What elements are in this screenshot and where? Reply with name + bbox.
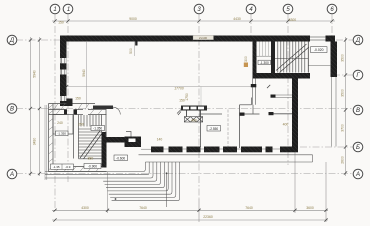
svg-text:3500: 3500 (341, 54, 345, 62)
porch front edge (145, 161, 312, 163)
window right wall lower (double lines) (331, 77, 333, 147)
svg-text:150: 150 (75, 97, 81, 101)
elevation box -1.350 bottom (51, 164, 74, 169)
corridor wall jamb left (271, 95, 276, 98)
jog white slot (129, 139, 136, 143)
porch slab top edge line (139, 154, 313, 156)
svg-text:3600: 3600 (306, 206, 314, 210)
window sill lines in bottom band (141, 148, 280, 150)
svg-text:Д: Д (9, 38, 15, 44)
white label patch on top wall (193, 35, 214, 40)
partition y114 right part (274, 113, 293, 115)
bubble axis 1 (50, 4, 60, 14)
stair mid shaft double line (73, 115, 75, 159)
stair break diagonal 1 (276, 44, 307, 71)
stair lower landing wall (257, 73, 311, 79)
svg-text:5940: 5940 (82, 69, 86, 77)
tambour wall (93, 106, 113, 110)
upper flight treads (81, 115, 99, 127)
svg-text:9000: 9000 (129, 17, 137, 21)
extension line block corner to bottom dim (107, 172, 109, 213)
svg-text:-0.9: -0.9 (65, 165, 71, 169)
axis B line right (300, 146, 353, 148)
ticks interior dim (65, 85, 270, 88)
extension line right wall bottom (325, 162, 327, 222)
elevation box -0.900 bottom (84, 164, 101, 169)
block outer wall bottom double line (49, 171, 107, 173)
door dim drop line (133, 42, 135, 57)
svg-text:1: 1 (67, 7, 70, 13)
partition y114 left part (245, 113, 260, 115)
block outer wall top line (49, 103, 96, 105)
svg-text:Б: Б (356, 145, 360, 151)
svg-text:140: 140 (157, 138, 163, 142)
axis 1' line (67, 14, 69, 183)
interior dimension drop line (200, 87, 202, 110)
svg-text:В: В (10, 107, 14, 113)
stair stringer wall (271, 42, 275, 74)
ticks left dims (29, 38, 41, 175)
axis D line right (336, 39, 353, 41)
bubble axis G right (353, 70, 363, 80)
right dimension line (345, 37, 347, 176)
orange marker near stair (244, 63, 248, 68)
svg-text:150: 150 (179, 99, 185, 103)
stair well landing line (257, 55, 272, 57)
svg-text:400: 400 (191, 118, 197, 122)
svg-text:А: А (9, 172, 14, 178)
svg-text:-2.550: -2.550 (209, 127, 218, 131)
dashed partition x228 (227, 110, 229, 147)
footing lines left of block (44, 105, 46, 180)
extension line porch to bottom dim (198, 199, 200, 222)
axis 1 line (54, 14, 56, 212)
svg-text:3700: 3700 (341, 124, 345, 132)
svg-text:2х100: 2х100 (199, 36, 208, 40)
jog notch step (126, 132, 131, 137)
svg-text:5940: 5940 (33, 70, 37, 78)
door jamb tick below top wall (135, 42, 137, 46)
equipment base box hatched (184, 117, 202, 122)
bottom dimension line 2 (52, 219, 328, 221)
svg-text:-0.600: -0.600 (116, 156, 125, 160)
partition x200 (200, 110, 202, 148)
block door jambs top band (64, 109, 67, 114)
window left wall 1 (60, 58, 66, 63)
hatch ticks block top wall (54, 104, 89, 110)
bubble axis V right (353, 105, 363, 115)
elevation box -0.600 porch (114, 155, 128, 161)
bubble axis 6 (327, 4, 337, 14)
bubble axis V left (7, 104, 17, 114)
axis A line (16, 173, 353, 175)
svg-text:3430: 3430 (33, 138, 37, 146)
svg-text:300: 300 (244, 56, 248, 62)
hatch ticks on block walls (49, 105, 103, 172)
entrance steps fan (45, 162, 145, 172)
corridor wall y95.5 (276, 94, 293, 96)
svg-text:-1.300: -1.300 (260, 61, 269, 65)
block right wall dark (102, 132, 107, 168)
step leader line (166, 173, 168, 207)
svg-text:1750: 1750 (185, 93, 189, 101)
equipment left arrow tick (177, 110, 181, 116)
left dimension line outer (30, 37, 32, 176)
svg-text:150: 150 (58, 20, 64, 24)
bottom dimension line 1 (52, 209, 328, 211)
tambour door arc (113, 107, 120, 114)
equipment legs (186, 111, 188, 117)
small room top-left of block (53, 115, 73, 135)
porch slab edge right (312, 155, 314, 162)
bottom wall upper-left portion (105, 137, 128, 143)
stair flight divider (275, 58, 308, 60)
svg-text:2600: 2600 (341, 156, 345, 164)
bubble axis B right (353, 142, 363, 152)
bubble axis 1' (63, 4, 73, 14)
elevation box -0.020 top right (311, 47, 328, 53)
svg-text:В: В (356, 108, 360, 114)
axis 6 line (331, 14, 333, 43)
left dimension line inner (39, 37, 41, 176)
svg-text:-0.020: -0.020 (314, 48, 324, 52)
top dimension line (52, 20, 335, 22)
svg-text:880: 880 (88, 157, 94, 161)
door jamb left wall bottom (67, 99, 73, 107)
svg-text:4430: 4430 (233, 17, 241, 21)
step leader dot (166, 172, 168, 174)
elevation box -1.300 stair (258, 60, 271, 64)
bottom wall jog block (125, 137, 142, 148)
svg-text:6300: 6300 (289, 18, 297, 22)
block top wall band (49, 110, 107, 115)
step leader dot 2 (115, 198, 117, 200)
stair break diagonal 2 (280, 47, 310, 73)
axis 3 line (198, 14, 200, 200)
door jamb line x253 (252, 105, 254, 114)
stair enclosure left wall (253, 42, 257, 79)
ticks top dim (53, 19, 333, 22)
svg-text:-1.350: -1.350 (57, 132, 66, 136)
partition y114 door jamb stub (269, 112, 274, 115)
bubble axis A right (353, 169, 363, 179)
axis D line left (16, 39, 61, 41)
svg-text:А: А (355, 172, 360, 178)
interior thick wall vertical (292, 79, 298, 150)
window left wall 2 (60, 70, 66, 75)
landing edge line to right wall (308, 65, 331, 67)
interior vertical dim line hall (86, 42, 88, 107)
upper flight faint treads left (260, 42, 269, 57)
wall top-right corner block (326, 36, 336, 42)
svg-text:Д: Д (355, 38, 361, 44)
svg-text:3500: 3500 (341, 89, 345, 97)
block right upper thin wall (101, 115, 103, 133)
svg-text:250: 250 (78, 123, 84, 127)
svg-text:400: 400 (283, 123, 289, 127)
bottom wall lower band with window gaps (151, 147, 298, 153)
svg-text:17700: 17700 (174, 86, 184, 90)
block outer wall left double line (48, 104, 50, 172)
svg-text:240: 240 (57, 121, 63, 125)
bubble axis D right (353, 35, 363, 45)
axis 4 line (250, 14, 252, 43)
interior dimension line hall (67, 86, 253, 88)
bubble axis 3 (194, 4, 204, 14)
elevation box -1.350 room (56, 131, 69, 136)
partition y114 from x200 (201, 113, 223, 115)
svg-text:-1.35: -1.35 (53, 165, 60, 169)
svg-text:-1.350: -1.350 (93, 127, 102, 131)
svg-text:1: 1 (53, 7, 56, 13)
svg-text:-0.900: -0.900 (88, 165, 97, 169)
svg-text:7640: 7640 (245, 206, 253, 210)
bubble axis D left (7, 35, 17, 45)
svg-text:4300: 4300 (81, 206, 89, 210)
svg-text:500: 500 (129, 48, 133, 54)
svg-text:22360: 22360 (203, 215, 213, 219)
partition x239 (239, 105, 241, 148)
axis G line right (333, 74, 353, 76)
svg-text:7640: 7640 (139, 206, 147, 210)
wall left exterior (60, 36, 67, 107)
stair treads top-right (278, 42, 305, 73)
axis 5 line (287, 14, 289, 166)
wall right exterior upper (331, 42, 338, 78)
equipment frame with cells (181, 106, 207, 111)
bubble axis 5 (283, 4, 293, 14)
ticks bottom dim2 (53, 218, 327, 221)
elevation box mid-stair (91, 126, 105, 131)
door jamb below stair wall (251, 84, 256, 87)
window top-right lintel lines (310, 36, 326, 38)
partition below stair wall (252, 79, 254, 105)
bubble axis 4 (246, 4, 256, 14)
ticks right dim (344, 38, 347, 174)
extension line wall x295 to bottom dim (294, 152, 296, 213)
ticks bottom dim1 (53, 209, 327, 212)
corridor wall y104.8 (240, 104, 252, 106)
block stair break diagonal (80, 130, 101, 158)
partition jamb y114 left end (240, 113, 245, 116)
wall top exterior (61, 36, 311, 42)
axis V line (16, 108, 353, 110)
block stair treads (79, 129, 102, 159)
corridor wall vertical x251.5 (251, 98, 253, 105)
bubble axis A left (7, 169, 17, 179)
elevation box 2.550 (207, 126, 221, 132)
window left wall 3 (60, 96, 66, 101)
stair right edge line (307, 42, 309, 73)
